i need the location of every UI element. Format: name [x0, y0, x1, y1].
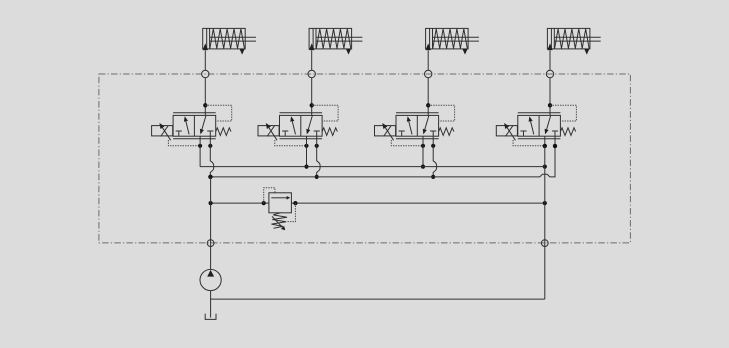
wire: boundary node down to valve 2 top port	[311, 78, 313, 116]
proportional 3/2 directional valve 4	[518, 113, 576, 139]
boundary port circle node, column 4	[546, 70, 553, 77]
junction dot: rail 2 tap on valve 4 drain	[553, 144, 557, 148]
junction dot: rail 1 end at right line	[543, 165, 547, 169]
cylinder 4 (single-acting, spring return)	[547, 28, 600, 54]
relief valve pilot line (dashed, left loop)	[264, 188, 275, 203]
tank symbol	[205, 314, 216, 320]
junction dot: valve 3 on rail 1	[421, 165, 425, 169]
wire: cylinder 2 port down to boundary node	[311, 50, 313, 70]
junction node on valve 1 output line (pilot tap)	[203, 103, 207, 107]
boundary port circle node, column 1	[202, 70, 209, 77]
relief valve (pressure limiter)	[269, 193, 292, 230]
boundary circle node on pump line	[207, 240, 214, 247]
cylinder 1 (single-acting, spring return)	[203, 28, 256, 54]
proportional solenoid actuator of valve 4	[496, 123, 517, 140]
drain line (dashed) from solenoid of valve 1	[168, 140, 200, 146]
junction dot: rail 3 / relief drain tap	[293, 201, 297, 205]
wire: valve 2 port P down to rail 1	[306, 136, 308, 166]
cylinder 3 (single-acting, spring return)	[426, 28, 479, 54]
pump P1 (fixed displacement)	[200, 269, 221, 290]
junction dot: valve 3 on rail 2	[431, 175, 435, 179]
wire: valve 1 port P down, corner into rail 1	[199, 136, 201, 166]
wire: valve 2 port T down with crossover hop to rail 2	[317, 136, 320, 177]
wire: boundary node down to valve 1 top port	[204, 78, 206, 116]
rail 2 (drain manifold with hop over right line, rises to valve 4)	[210, 136, 555, 177]
junction dots on drain line of valve 1	[198, 144, 212, 148]
pilot line (dashed) from output node to spring side of valve 3	[428, 105, 454, 121]
drain line (dashed) from solenoid of valve 2	[275, 140, 307, 146]
junction node on valve 2 output line (pilot tap)	[310, 103, 314, 107]
enclosure boundary (dash-dot frame)	[99, 74, 631, 243]
wire: boundary node down to valve 3 top port	[427, 78, 429, 116]
junction dot: pump line / rail 3	[209, 201, 213, 205]
junction dots on drain line of valve 3	[421, 144, 435, 148]
junction dot: valve 4 drain tap on right line	[543, 144, 547, 148]
boundary port circle node, column 3	[425, 70, 432, 77]
proportional solenoid actuator of valve 3	[375, 123, 396, 140]
wire: right return line (valve 4 / rails down to bottom return)	[544, 146, 546, 299]
wire: pump suction down to tank	[210, 291, 212, 318]
pilot line (dashed) from output node to spring side of valve 2	[312, 105, 338, 121]
proportional 3/2 directional valve 3	[396, 113, 454, 139]
relief valve drain line (dashed, right loop)	[286, 203, 295, 222]
junction node on valve 3 output line (pilot tap)	[426, 103, 430, 107]
wire: valve 4 port P down (becomes right return line)	[544, 136, 546, 146]
junction dot: pump line / rail 2	[209, 175, 213, 179]
wire: valve 3 port P down to rail 1	[422, 136, 424, 166]
wire: boundary node down to valve 4 top port	[549, 78, 551, 116]
wire: cylinder 4 port down to boundary node	[549, 50, 551, 70]
pilot line (dashed) from output node to spring side of valve 1	[205, 105, 231, 121]
cylinder 2 (single-acting, spring return)	[309, 28, 362, 54]
proportional solenoid actuator of valve 1	[152, 123, 173, 140]
wire: cylinder 1 port down to boundary node	[204, 50, 206, 70]
boundary port circle node, column 2	[308, 70, 315, 77]
junction node on valve 4 output line (pilot tap)	[548, 103, 552, 107]
wire: valve 3 port T down with crossover hop to rail 2	[433, 136, 436, 177]
junction dot: rail 3 / relief pilot tap	[262, 201, 266, 205]
junction dot: valve 1 on rail 2	[208, 175, 212, 179]
rail 3 (pressure line through relief valve)	[211, 202, 545, 204]
junction dots on drain line of valve 2	[304, 144, 318, 148]
junction dot: rail 3 end at right line	[543, 201, 547, 205]
pilot line (dashed) from output node to spring side of valve 4	[550, 105, 576, 121]
drain line (dashed) from solenoid of valve 3	[391, 140, 423, 146]
junction dot: valve 2 on rail 2	[315, 175, 319, 179]
junction dot: valve 2 on rail 1	[304, 165, 308, 169]
boundary circle node on right return line	[541, 240, 548, 247]
drain line (dashed) from solenoid of valve 4	[513, 140, 545, 146]
wire: pump pressure line up to valve 1 (x=210.5)	[210, 177, 212, 270]
proportional solenoid actuator of valve 2	[258, 123, 279, 140]
wire: cylinder 3 port down to boundary node	[427, 50, 429, 70]
junction dots on drain line of valve 4	[543, 144, 557, 148]
wire: valve 1 port T down with crossover hop to rail 2	[210, 136, 213, 177]
proportional 3/2 directional valve 2	[280, 113, 338, 139]
wire: bottom return line from right line to tank junction	[211, 298, 545, 300]
proportional 3/2 directional valve 1	[173, 113, 231, 139]
rail 1 (tank return manifold)	[200, 166, 545, 168]
